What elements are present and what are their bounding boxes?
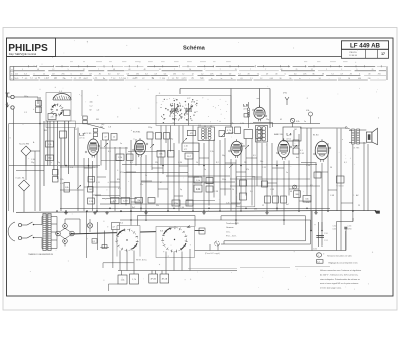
tuner enclosure xyxy=(46,93,71,122)
svg-text:et terre (voir page suiv.): et terre (voir page suiv.). xyxy=(320,287,342,290)
svg-text:AV.: AV. xyxy=(356,194,359,197)
svg-text:1n: 1n xyxy=(145,175,147,177)
svg-text:1,8k: 1,8k xyxy=(65,187,69,189)
pin numbers xyxy=(85,109,331,155)
svg-text:2V5: 2V5 xyxy=(173,74,176,76)
resistor R39 xyxy=(265,196,271,203)
svg-text:210: 210 xyxy=(368,78,371,80)
band switch S1 xyxy=(50,103,63,116)
svg-text:48: 48 xyxy=(113,69,115,71)
svg-text:C.8: C.8 xyxy=(108,127,111,129)
padder C5 xyxy=(64,110,71,116)
resistor R33 xyxy=(172,200,180,206)
svg-text:(17.6): (17.6) xyxy=(80,138,85,140)
svg-text:12: 12 xyxy=(192,74,194,76)
svg-text:0V4: 0V4 xyxy=(358,78,361,80)
rotary wafer S3 xyxy=(161,226,187,252)
resistor R21 xyxy=(256,130,262,139)
hp box xyxy=(199,228,205,234)
wire fm diag xyxy=(87,124,104,129)
noise xyxy=(9,40,379,290)
wire psu verticals xyxy=(86,211,109,258)
svg-text:ta: ta xyxy=(221,77,222,80)
svg-text:68k: 68k xyxy=(159,154,162,156)
rotary wafer S2 xyxy=(115,229,138,252)
wire psu links xyxy=(65,219,80,234)
capacitor C42 xyxy=(240,180,247,186)
switch enclosure A xyxy=(117,226,140,257)
wire gang drops xyxy=(161,117,211,166)
svg-text:22: 22 xyxy=(75,129,77,131)
svg-text:7,4: 7,4 xyxy=(257,74,259,76)
capacitor C31 xyxy=(244,130,253,139)
capacitor C3 xyxy=(36,101,42,107)
svg-text:7: 7 xyxy=(98,69,99,71)
FM filter b xyxy=(83,120,87,124)
resistor R2b xyxy=(53,177,59,183)
wave box xyxy=(60,131,67,138)
svg-text:47p: 47p xyxy=(90,102,93,104)
svg-text:a5: a5 xyxy=(63,78,65,80)
capacitor C9 xyxy=(46,155,54,161)
resistor R2c xyxy=(64,183,70,193)
svg-text:4n7: 4n7 xyxy=(286,204,289,206)
tube V3 osc xyxy=(254,105,265,121)
svg-text:2: 2 xyxy=(326,69,327,71)
svg-text:10n: 10n xyxy=(260,161,263,163)
svg-text:(FM): (FM) xyxy=(283,93,287,95)
dial lamp xyxy=(87,219,92,232)
svg-text:2V5: 2V5 xyxy=(62,74,65,76)
svg-text:12: 12 xyxy=(182,74,184,76)
svg-text:10k: 10k xyxy=(305,199,308,201)
svg-text:ta: ta xyxy=(211,77,212,80)
wire switch left xyxy=(103,230,134,269)
ratio det block 2 xyxy=(185,153,193,159)
svg-text:86: 86 xyxy=(313,74,315,76)
svg-text:PB.IV/G: PB.IV/G xyxy=(349,52,357,54)
svg-text:3,9k: 3,9k xyxy=(60,179,64,181)
svg-text:0,1: 0,1 xyxy=(344,162,347,164)
svg-text:1,2k: 1,2k xyxy=(226,203,230,205)
svg-text:7: 7 xyxy=(22,78,23,80)
svg-text:ta: ta xyxy=(299,77,300,80)
svg-text:ECC 85: ECC 85 xyxy=(84,133,92,135)
resistor R30 xyxy=(111,198,120,204)
capacitor C15 xyxy=(168,151,175,158)
svg-text:7: 7 xyxy=(220,69,221,71)
svg-text:5p: 5p xyxy=(180,189,182,191)
svg-text:1,7k: 1,7k xyxy=(132,279,136,281)
svg-text:1n: 1n xyxy=(304,121,306,123)
svg-text:3a: 3a xyxy=(231,78,233,80)
svg-text:15: 15 xyxy=(235,69,237,71)
svg-text:48: 48 xyxy=(128,69,130,71)
capacitor C41 xyxy=(186,200,193,206)
wire osc top xyxy=(180,89,270,129)
svg-text:Schéma: Schéma xyxy=(183,46,206,52)
svg-text:TRANSFO D’ALIMENTATION: TRANSFO D’ALIMENTATION xyxy=(28,253,54,256)
svg-text:1k: 1k xyxy=(196,162,198,164)
svg-text:210: 210 xyxy=(162,78,165,80)
svg-text:FM: FM xyxy=(96,119,99,121)
grid cap C7 xyxy=(93,128,97,132)
tube V5 EABC80 xyxy=(278,138,290,159)
svg-text:4700: 4700 xyxy=(348,228,352,230)
power transformer xyxy=(28,214,57,256)
tube V2 ECH81 xyxy=(135,138,146,157)
svg-text:1.2: 1.2 xyxy=(172,78,174,80)
header rule xyxy=(7,56,342,58)
svg-text:25: 25 xyxy=(358,205,360,207)
logo box xyxy=(7,38,56,57)
svg-text:7: 7 xyxy=(204,69,205,71)
wire hp stubs xyxy=(210,216,311,251)
svg-text:9: 9 xyxy=(22,69,23,71)
svg-text:Gamme: Gamme xyxy=(226,227,234,229)
svg-text:5,2: 5,2 xyxy=(317,262,320,264)
wire switch drops xyxy=(120,249,190,271)
svg-text:2V5: 2V5 xyxy=(303,74,306,76)
tube V6 EL84 output xyxy=(315,139,329,162)
svg-text:2V5: 2V5 xyxy=(210,74,213,76)
svg-text:1.2: 1.2 xyxy=(35,78,37,80)
svg-text:C.60: C.60 xyxy=(31,159,35,161)
svg-text:C.46: C.46 xyxy=(306,165,310,167)
svg-text:7: 7 xyxy=(250,69,251,71)
svg-text:C.63: C.63 xyxy=(348,226,352,228)
svg-text:6,3: 6,3 xyxy=(24,74,26,76)
coupling coil L7 xyxy=(247,108,249,110)
svg-text:TO 50.04: TO 50.04 xyxy=(336,186,343,188)
svg-text:sions indiquées. Potentiomèt: sions indiquées. Potentiomètre de volume… xyxy=(320,278,360,281)
trimmer block xyxy=(48,114,56,120)
svg-text:L.10: L.10 xyxy=(184,146,188,148)
tuning gang CT xyxy=(156,96,231,126)
svg-text:12: 12 xyxy=(43,74,45,76)
switch key FM xyxy=(19,144,31,166)
svg-text:~: ~ xyxy=(378,78,379,80)
wire box stubs xyxy=(109,271,167,292)
svg-text:Touches AM /: Touches AM / xyxy=(226,222,239,225)
resistor R37 xyxy=(206,186,213,192)
svg-text:0,4: 0,4 xyxy=(46,78,48,80)
resistor R41 xyxy=(281,196,287,203)
marker dipole2 xyxy=(290,118,294,127)
resistor R31 xyxy=(121,198,130,204)
svg-text:4,7k: 4,7k xyxy=(48,144,52,146)
svg-text:5,6: 5,6 xyxy=(250,191,253,193)
resistor R40 xyxy=(273,196,279,203)
svg-text:Réglage du circuit imprimé: Réglage du circuit imprimé et ret. xyxy=(329,261,359,264)
resistor R8 xyxy=(156,133,162,140)
resistor R38 xyxy=(262,181,268,187)
resistor R5 xyxy=(103,133,109,140)
capacitor C45 xyxy=(314,172,321,178)
wire left border bus xyxy=(8,124,10,212)
svg-text:C.50: C.50 xyxy=(324,233,328,235)
resistor R36 xyxy=(206,178,213,184)
svg-text:220k: 220k xyxy=(222,179,226,181)
FM filter a xyxy=(83,116,87,120)
resistor R51 xyxy=(130,274,139,284)
svg-text:C.24: C.24 xyxy=(240,123,244,125)
svg-text:x: x xyxy=(160,78,161,80)
svg-text:7,4: 7,4 xyxy=(220,74,222,76)
svg-text:(Prise H.P. suppl.): (Prise H.P. suppl.) xyxy=(205,252,220,255)
svg-text:7,4: 7,4 xyxy=(331,74,333,76)
capacitor C12 xyxy=(147,132,153,139)
resistor R52 xyxy=(149,274,158,283)
svg-text:(472): (472) xyxy=(287,138,292,140)
svg-text:maxi et sans signal HF su: maxi et sans signal HF sur la prise ante… xyxy=(320,282,359,285)
svg-text:12k: 12k xyxy=(155,162,158,164)
svg-text:220p: 220p xyxy=(148,127,152,129)
IF transformer IFT1 xyxy=(198,125,215,141)
svg-text:470: 470 xyxy=(92,167,95,169)
svg-text:LF 449 AB: LF 449 AB xyxy=(350,42,381,49)
svg-text:4,7: 4,7 xyxy=(113,227,116,229)
svg-text:8n2: 8n2 xyxy=(132,207,135,209)
svg-text:0,9: 0,9 xyxy=(341,74,343,76)
svg-text:1k: 1k xyxy=(232,189,234,191)
svg-text:4P.2A: 4P.2A xyxy=(151,277,157,280)
svg-text:C.2: C.2 xyxy=(90,106,93,108)
svg-text:6,3: 6,3 xyxy=(127,74,129,76)
resistor R12 xyxy=(226,127,233,134)
grid res R4 xyxy=(93,133,97,137)
svg-text:24: 24 xyxy=(55,78,57,80)
output transformer xyxy=(349,129,366,150)
svg-text:0: 0 xyxy=(71,74,72,76)
svg-text:6,3: 6,3 xyxy=(294,74,296,76)
label L4 xyxy=(283,127,301,141)
resistor R60 xyxy=(92,239,97,244)
svg-text:1,1: 1,1 xyxy=(30,78,32,80)
svg-text:2,1: 2,1 xyxy=(338,78,340,80)
capacitor C40 xyxy=(148,198,155,204)
svg-text:0,5: 0,5 xyxy=(310,185,313,187)
svg-text:2V5: 2V5 xyxy=(378,74,381,76)
svg-text:de 220 V~. Tolérance env.: de 220 V~. Tolérance env. 10% sur les te… xyxy=(320,273,358,276)
switch top line xyxy=(138,216,196,227)
wire tuner drops xyxy=(40,97,78,211)
pot marker xyxy=(293,185,297,189)
svg-text:4,7k: 4,7k xyxy=(230,123,234,125)
svg-text:21: 21 xyxy=(372,69,374,71)
svg-text:39k: 39k xyxy=(156,205,159,207)
resistor R10 xyxy=(116,154,124,161)
svg-text:12.60.34: 12.60.34 xyxy=(349,55,358,57)
svg-text:L.6: L.6 xyxy=(243,104,248,108)
svg-text:12: 12 xyxy=(83,69,85,71)
resistor R42 xyxy=(294,191,301,198)
svg-text:22k: 22k xyxy=(100,127,103,129)
svg-text:2,2M: 2,2M xyxy=(123,200,128,202)
resistor R43 xyxy=(303,196,311,203)
svg-text:~: ~ xyxy=(309,78,310,80)
svg-text:C.35: C.35 xyxy=(262,167,266,169)
svg-text:6,3: 6,3 xyxy=(108,151,111,153)
svg-text:1,2: 1,2 xyxy=(201,74,203,76)
svg-text:5p: 5p xyxy=(58,162,60,164)
svg-text:0,9: 0,9 xyxy=(52,74,54,76)
wire earth xyxy=(13,109,15,212)
svg-text:4R.2A: 4R.2A xyxy=(162,277,168,280)
svg-text:48: 48 xyxy=(322,74,324,76)
mains plug xyxy=(8,222,27,241)
svg-text:Tensions mesurées en volts: Tensions mesurées en volts xyxy=(327,254,352,257)
svg-text:1M: 1M xyxy=(137,200,140,202)
wire speaker feed xyxy=(300,127,351,130)
svg-text:0,9: 0,9 xyxy=(80,74,82,76)
switch feed box xyxy=(112,223,120,230)
svg-text:12: 12 xyxy=(262,205,264,207)
svg-text:7: 7 xyxy=(174,69,175,71)
output box TO xyxy=(337,176,345,183)
svg-text:8,2: 8,2 xyxy=(216,162,219,164)
wire left risers xyxy=(31,151,40,211)
svg-text:48: 48 xyxy=(37,69,39,71)
wire sec stub xyxy=(337,218,354,222)
svg-text:25p: 25p xyxy=(266,119,269,121)
svg-text:C.38: C.38 xyxy=(214,191,218,193)
svg-text:4,5: 4,5 xyxy=(240,78,242,80)
capacitor C24 xyxy=(235,127,241,134)
tube V4 EF89 xyxy=(231,139,242,158)
svg-text:12: 12 xyxy=(52,69,54,71)
resistor R1 xyxy=(46,141,54,147)
svg-text:1,1: 1,1 xyxy=(184,78,186,80)
svg-text:L.5: L.5 xyxy=(250,123,253,125)
svg-text:47k: 47k xyxy=(113,200,116,202)
svg-text:1,1: 1,1 xyxy=(95,78,97,80)
svg-text:x: x xyxy=(103,78,104,80)
B+ line xyxy=(70,233,117,234)
svg-text:0,9: 0,9 xyxy=(155,74,157,76)
capacitor C14 xyxy=(127,154,134,161)
bridge rectifier xyxy=(56,219,75,247)
svg-text:17: 17 xyxy=(381,52,385,56)
resistor R6 xyxy=(111,134,117,141)
svg-text:1,5k: 1,5k xyxy=(210,151,214,153)
svg-text:7: 7 xyxy=(111,78,112,80)
small wafer xyxy=(215,241,220,246)
svg-text:Dép’ SERVICE Central: Dép’ SERVICE Central xyxy=(9,52,37,56)
svg-text:1,1: 1,1 xyxy=(200,78,202,80)
svg-text:1n: 1n xyxy=(286,172,288,174)
resistor R53 xyxy=(160,274,169,283)
svg-text:0,1: 0,1 xyxy=(130,162,133,164)
svg-text:AM: AM xyxy=(44,129,47,132)
svg-text:47k: 47k xyxy=(246,169,249,171)
resistor R2 xyxy=(88,187,94,193)
svg-text:2: 2 xyxy=(341,69,342,71)
svg-text:z: z xyxy=(342,139,343,141)
svg-text:C.61: C.61 xyxy=(60,183,64,185)
svg-text:RETR. B.Rec: RETR. B.Rec xyxy=(136,259,147,261)
svg-text:6,8k: 6,8k xyxy=(296,121,300,123)
capacitor C4 xyxy=(36,107,42,113)
svg-text:7,4: 7,4 xyxy=(238,74,240,76)
svg-text:27k: 27k xyxy=(306,202,309,204)
capacitor C43 xyxy=(240,193,247,200)
svg-text:C.62: C.62 xyxy=(333,226,337,228)
svg-text:96: 96 xyxy=(348,78,350,80)
svg-text:C.30: C.30 xyxy=(178,162,182,164)
B+ arrow xyxy=(187,225,192,228)
resistor R61 xyxy=(102,245,107,249)
svg-text:68p: 68p xyxy=(240,143,243,145)
svg-text:P.O. - G.O.: P.O. - G.O. xyxy=(226,236,237,238)
svg-text:68: 68 xyxy=(290,191,292,193)
svg-text:5: 5 xyxy=(68,69,69,71)
wire faint bottom xyxy=(188,267,330,269)
svg-text:2,1: 2,1 xyxy=(250,78,252,80)
wire osc loop xyxy=(253,123,273,128)
svg-text:0,45: 0,45 xyxy=(333,228,337,230)
wire diamond link xyxy=(25,156,27,180)
svg-text:96: 96 xyxy=(289,78,291,80)
svg-text:12: 12 xyxy=(159,69,161,71)
svg-text:M.A.: M.A. xyxy=(306,109,310,112)
ratio det block xyxy=(182,143,199,151)
svg-text:470k: 470k xyxy=(120,172,124,174)
svg-text:21: 21 xyxy=(296,69,298,71)
resistor R2a xyxy=(53,170,59,176)
resistor R11 xyxy=(157,151,165,158)
svg-text:81: 81 xyxy=(136,78,138,80)
trimmer arrows xyxy=(77,133,297,189)
svg-text:0: 0 xyxy=(34,74,35,76)
value labels xyxy=(24,96,360,211)
svg-text:1.2: 1.2 xyxy=(74,78,76,80)
svg-text:C.39: C.39 xyxy=(270,189,274,191)
svg-text:6,3: 6,3 xyxy=(164,74,166,76)
svg-text:2M: 2M xyxy=(244,162,247,164)
svg-text:472: 472 xyxy=(184,149,187,151)
cap C33 xyxy=(293,140,299,146)
marker FM xyxy=(306,109,313,124)
svg-text:0,9: 0,9 xyxy=(89,74,91,76)
resistor R3 xyxy=(88,177,95,183)
svg-text:C.1: C.1 xyxy=(24,112,27,114)
svg-text:470k: 470k xyxy=(174,203,178,205)
svg-text:1n: 1n xyxy=(120,143,122,145)
capacitor C50 C51 xyxy=(313,222,328,251)
svg-text:C.44: C.44 xyxy=(180,207,184,209)
res R23 xyxy=(293,148,299,154)
svg-text:osc.: osc. xyxy=(257,98,261,100)
svg-text:6,3: 6,3 xyxy=(145,74,147,76)
svg-text:7: 7 xyxy=(265,69,266,71)
PU box xyxy=(237,176,255,206)
svg-text:C.51: C.51 xyxy=(324,240,328,242)
svg-text:0,1: 0,1 xyxy=(118,188,121,190)
svg-text:48: 48 xyxy=(144,69,146,71)
svg-text:96: 96 xyxy=(189,69,191,71)
measurement strip xyxy=(10,62,387,80)
svg-text:390p: 390p xyxy=(24,96,28,98)
svg-text:Touche FM: Touche FM xyxy=(19,144,29,146)
svg-text:b: b xyxy=(11,74,12,76)
svg-text:81: 81 xyxy=(38,78,40,80)
svg-text:24: 24 xyxy=(79,78,81,80)
svg-text:48: 48 xyxy=(280,69,282,71)
svg-text:1,5k: 1,5k xyxy=(121,279,125,281)
legend paragraph xyxy=(320,269,362,290)
wire vertical runs xyxy=(84,128,368,251)
